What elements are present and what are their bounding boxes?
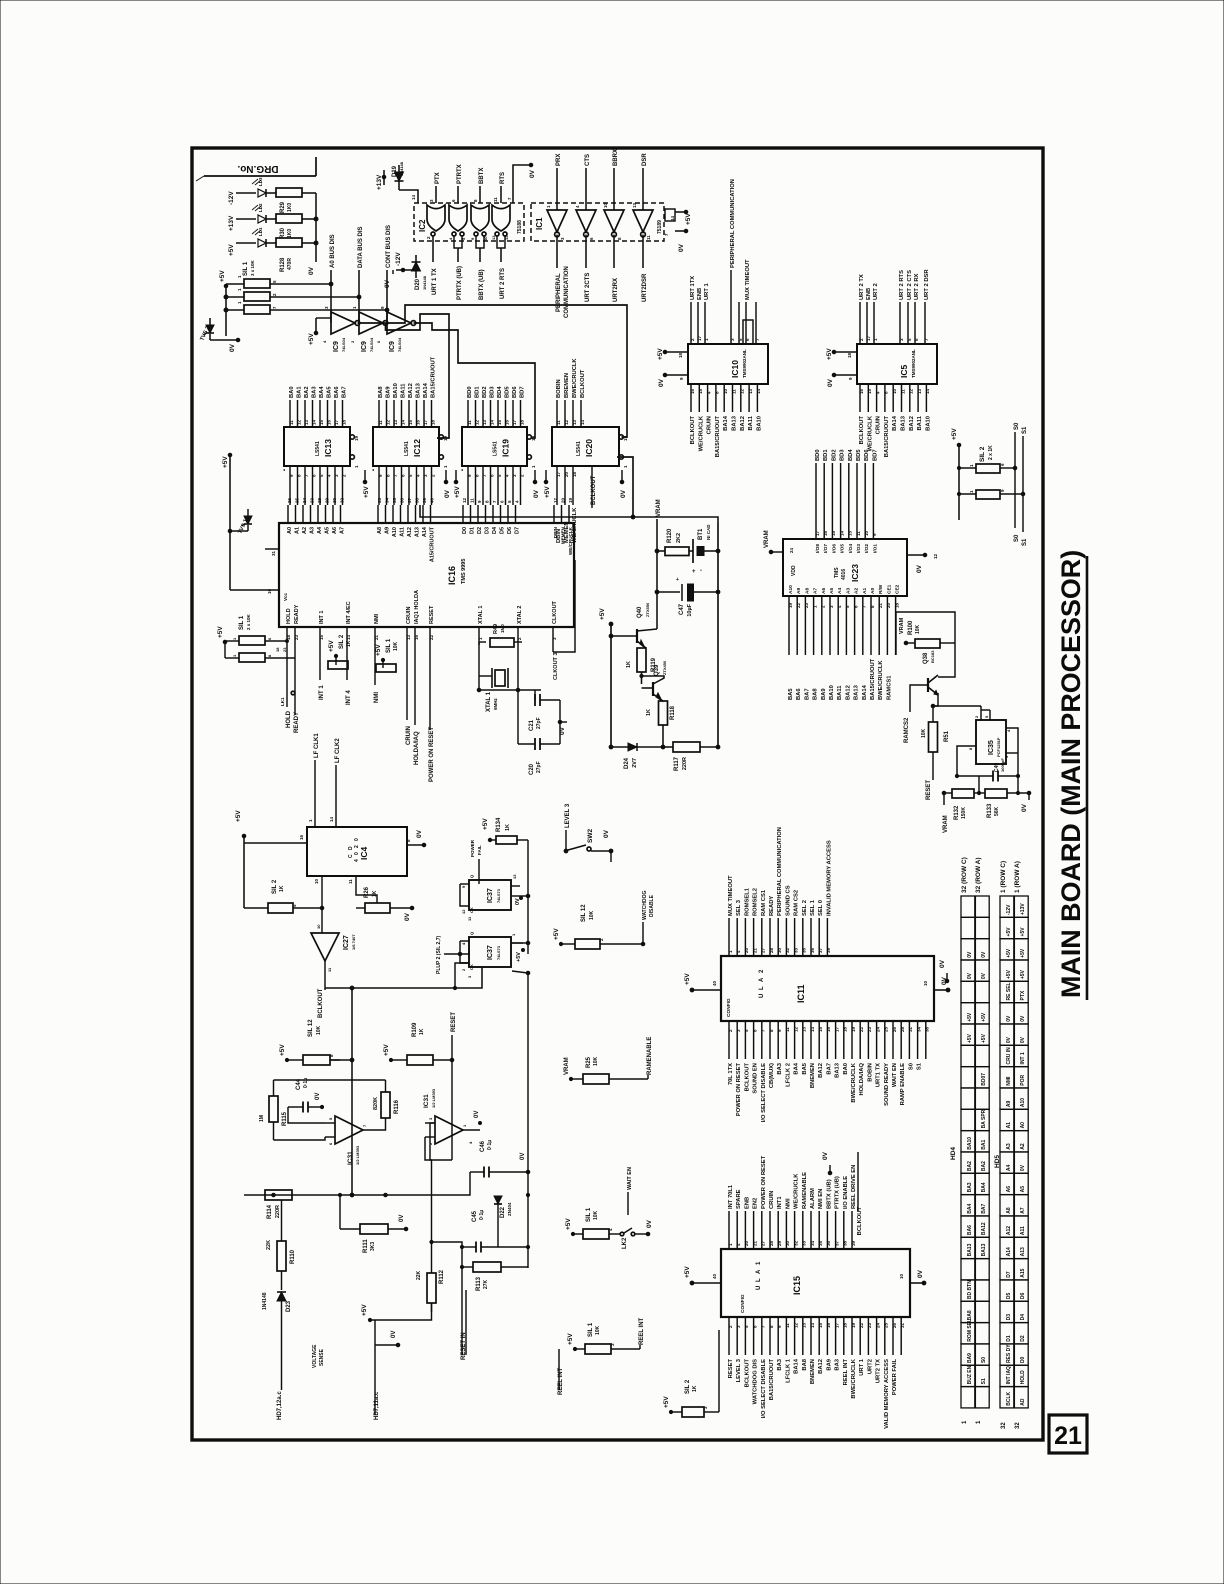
svg-text:14: 14 xyxy=(670,215,675,221)
svg-text:INT 1: INT 1 xyxy=(319,685,325,700)
svg-text:16: 16 xyxy=(299,834,304,840)
svg-text:IC1: IC1 xyxy=(535,217,544,230)
svg-text:WE/CRUCLK: WE/CRUCLK xyxy=(794,1173,800,1209)
svg-text:19: 19 xyxy=(851,1026,856,1032)
svg-text:22: 22 xyxy=(859,1322,864,1328)
svg-text:13: 13 xyxy=(848,530,853,536)
svg-text:MEMEN: MEMEN xyxy=(561,526,566,544)
svg-text:16: 16 xyxy=(823,530,828,536)
svg-text:+13V: +13V xyxy=(228,215,235,231)
svg-text:BWE/CRUCLK: BWE/CRUCLK xyxy=(572,358,578,398)
svg-text:VRAM: VRAM xyxy=(564,1057,570,1075)
svg-text:A9: A9 xyxy=(1006,1100,1012,1107)
svg-text:HOLD: HOLD xyxy=(286,608,292,624)
svg-text:34: 34 xyxy=(810,1240,815,1246)
svg-text:BA7: BA7 xyxy=(826,1063,832,1075)
svg-text:24: 24 xyxy=(789,547,794,553)
svg-text:75188: 75188 xyxy=(517,220,523,234)
svg-text:CK: CK xyxy=(469,907,474,913)
jumper loop above IC10 xyxy=(743,320,753,344)
svg-text:Q39: Q39 xyxy=(654,664,660,676)
svg-text:A3: A3 xyxy=(1006,1143,1012,1150)
svg-text:11: 11 xyxy=(348,879,353,884)
svg-text:A0: A0 xyxy=(1020,1122,1026,1129)
svg-text:BCLKOUT: BCLKOUT xyxy=(744,1359,750,1388)
svg-text:23: 23 xyxy=(294,634,299,640)
svg-text:23: 23 xyxy=(282,647,287,652)
svg-text:10µF: 10µF xyxy=(687,603,693,616)
svg-text:10K: 10K xyxy=(921,728,927,738)
svg-text:+5V: +5V xyxy=(684,1266,691,1278)
svg-text:CRUIN: CRUIN xyxy=(406,607,412,624)
svg-text:URT 1: URT 1 xyxy=(859,1358,865,1376)
svg-text:BA15/CRUOUT: BA15/CRUOUT xyxy=(769,1359,775,1401)
svg-text:HD7,12a.c: HD7,12a.c xyxy=(277,1391,283,1420)
svg-text:1M0: 1M0 xyxy=(500,624,505,633)
svg-text:13: 13 xyxy=(406,634,411,640)
svg-text:19: 19 xyxy=(568,497,573,503)
svg-text:-: - xyxy=(700,568,702,574)
svg-text:1000pF: 1000pF xyxy=(1000,758,1005,772)
svg-text:I/O SELECT DISABLE: I/O SELECT DISABLE xyxy=(761,1063,767,1122)
svg-text:13: 13 xyxy=(512,874,517,879)
svg-text:+5V: +5V xyxy=(308,333,315,345)
zener D24 2V7 in series xyxy=(628,743,637,751)
svg-text:SIL 2: SIL 2 xyxy=(339,634,345,649)
svg-text:D0: D0 xyxy=(1020,1356,1026,1363)
svg-text:21: 21 xyxy=(374,634,379,640)
svg-text:LF CLK2: LF CLK2 xyxy=(335,738,341,763)
IC23 I/O pins and BD bus stubs xyxy=(815,463,817,539)
svg-text:WAIT EN: WAIT EN xyxy=(627,1167,633,1190)
svg-text:0V: 0V xyxy=(315,1093,321,1100)
svg-text:18: 18 xyxy=(843,1026,848,1032)
svg-text:NMI EN: NMI EN xyxy=(818,1189,824,1209)
wire +5V rail x528 at IC37 xyxy=(527,840,529,954)
svg-text:0V: 0V xyxy=(981,951,987,958)
svg-text:I/O7: I/O7 xyxy=(823,544,829,553)
svg-text:ROMSEL1: ROMSEL1 xyxy=(744,887,750,916)
svg-text:BA8: BA8 xyxy=(967,1310,973,1320)
reset supervisor IC35 PCF1251P xyxy=(976,720,1006,764)
svg-text:+5V: +5V xyxy=(1020,927,1026,937)
inverter IC9b 74LS04 xyxy=(359,312,383,334)
svg-text:URT 1TX: URT 1TX xyxy=(690,276,696,300)
svg-text:12: 12 xyxy=(474,419,479,425)
svg-text:BA3: BA3 xyxy=(777,1358,783,1370)
svg-text:SENSE: SENSE xyxy=(319,1348,325,1366)
svg-text:+13V: +13V xyxy=(1020,903,1026,915)
svg-text:TMS9902ANL: TMS9902ANL xyxy=(742,349,747,378)
capacitor C49 1000pF xyxy=(992,771,994,782)
svg-text:A14: A14 xyxy=(422,526,428,537)
svg-text:NMI: NMI xyxy=(374,692,380,703)
svg-text:BA3: BA3 xyxy=(777,1062,783,1074)
svg-text:32: 32 xyxy=(1001,1422,1007,1429)
svg-text:1/6 7407: 1/6 7407 xyxy=(351,934,356,950)
svg-text:SIL 1: SIL 1 xyxy=(386,638,392,653)
svg-text:14: 14 xyxy=(756,388,761,394)
svg-text:DATA BUS DIS: DATA BUS DIS xyxy=(358,226,364,268)
svg-text:BA15/CRUOUT: BA15/CRUOUT xyxy=(431,356,437,398)
svg-text:BD0: BD0 xyxy=(815,449,821,461)
svg-text:R133: R133 xyxy=(987,803,993,818)
svg-text:BA9: BA9 xyxy=(386,386,392,398)
svg-text:+5V: +5V xyxy=(383,1044,390,1056)
IC23 address pins to BA bus xyxy=(788,596,790,655)
svg-text:17: 17 xyxy=(556,471,561,477)
svg-text:27: 27 xyxy=(761,947,766,953)
svg-text:POWER ON RESET: POWER ON RESET xyxy=(761,1155,767,1209)
svg-text:A13: A13 xyxy=(1020,1247,1026,1256)
svg-text:30: 30 xyxy=(777,947,782,953)
svg-text:BA3: BA3 xyxy=(967,1182,973,1192)
svg-text:27: 27 xyxy=(761,1240,766,1246)
svg-text:DSR: DSR xyxy=(642,153,648,166)
svg-text:40: 40 xyxy=(712,1273,717,1279)
svg-text:R26: R26 xyxy=(364,886,370,898)
svg-text:PTX: PTX xyxy=(1020,990,1026,1000)
octal buffer IC20 xyxy=(552,427,619,466)
svg-text:A3: A3 xyxy=(310,527,316,534)
svg-text:MUX TIMEOUT: MUX TIMEOUT xyxy=(745,259,751,300)
svg-text:PTRTX: PTRTX xyxy=(457,164,463,184)
svg-text:BD7: BD7 xyxy=(520,386,526,398)
svg-text:D7: D7 xyxy=(515,527,521,534)
wire HOLD READY down to labels xyxy=(286,645,288,700)
svg-text:21: 21 xyxy=(878,602,883,608)
resistor R133 56K xyxy=(985,789,1007,798)
svg-text:37: 37 xyxy=(834,1240,839,1246)
svg-text:+5V: +5V xyxy=(544,486,551,498)
svg-text:39: 39 xyxy=(422,497,427,503)
svg-text:BA3: BA3 xyxy=(312,386,318,398)
svg-text:16: 16 xyxy=(826,1026,831,1032)
svg-text:BA14: BA14 xyxy=(892,415,898,431)
svg-text:0V: 0V xyxy=(916,564,923,573)
svg-text:0V: 0V xyxy=(559,726,566,735)
svg-text:0V: 0V xyxy=(1021,803,1028,812)
svg-text:BD BTN: BD BTN xyxy=(967,1280,973,1299)
svg-text:24: 24 xyxy=(875,1026,880,1032)
svg-text:LS541: LS541 xyxy=(576,441,582,456)
svg-text:S0: S0 xyxy=(981,1357,987,1363)
svg-text:13: 13 xyxy=(802,1026,807,1032)
svg-text:23: 23 xyxy=(804,602,809,608)
svg-text:+5V: +5V xyxy=(967,1033,973,1043)
svg-text:IC4: IC4 xyxy=(359,847,369,861)
svg-text:BA0: BA0 xyxy=(289,386,295,398)
svg-text:12: 12 xyxy=(909,388,914,394)
svg-text:BA6: BA6 xyxy=(334,386,340,398)
svg-text:17: 17 xyxy=(334,419,339,425)
svg-text:17: 17 xyxy=(866,335,871,341)
svg-text:R114: R114 xyxy=(267,1204,273,1219)
buffer IC27 1/6 7407 xyxy=(311,933,339,961)
svg-text:15: 15 xyxy=(818,1322,823,1328)
svg-text:A: A xyxy=(759,977,765,982)
svg-text:A6: A6 xyxy=(332,527,338,534)
svg-text:I/O2: I/O2 xyxy=(864,544,870,553)
svg-text:0V: 0V xyxy=(404,912,411,921)
svg-text:BBTX: BBTX xyxy=(479,168,485,184)
svg-text:14: 14 xyxy=(489,419,494,425)
svg-text:WE/CRUCLK: WE/CRUCLK xyxy=(698,415,704,451)
svg-text:470R: 470R xyxy=(287,258,293,270)
svg-text:BA13: BA13 xyxy=(854,684,860,700)
svg-text:S0: S0 xyxy=(1014,534,1020,542)
svg-text:1K0: 1K0 xyxy=(287,229,293,238)
svg-text:BD6: BD6 xyxy=(512,386,518,398)
svg-text:SEL 0: SEL 0 xyxy=(818,900,824,916)
svg-text:A8: A8 xyxy=(377,527,383,534)
svg-text:BA12: BA12 xyxy=(818,1063,824,1078)
svg-text:ZTX550: ZTX550 xyxy=(645,602,650,617)
svg-text:21: 21 xyxy=(752,947,757,953)
svg-text:BA11: BA11 xyxy=(917,415,923,430)
svg-text:BNEMEN: BNEMEN xyxy=(810,1359,816,1384)
svg-text:SIL 12: SIL 12 xyxy=(308,1019,314,1037)
svg-text:150K: 150K xyxy=(961,807,967,819)
svg-text:SEL 1: SEL 1 xyxy=(810,899,816,916)
svg-text:A9: A9 xyxy=(796,588,802,594)
svg-text:38: 38 xyxy=(843,1240,848,1246)
svg-text:RESET: RESET xyxy=(451,1012,457,1032)
svg-text:+5V: +5V xyxy=(235,810,242,822)
svg-text:IC23: IC23 xyxy=(850,564,860,582)
svg-text:1K: 1K xyxy=(372,890,378,897)
svg-text:BA13: BA13 xyxy=(981,1243,987,1256)
svg-text:BA4: BA4 xyxy=(319,386,325,398)
resistor R132 150K xyxy=(952,789,974,798)
svg-text:IC15: IC15 xyxy=(792,1276,802,1295)
svg-text:DRG.No.: DRG.No. xyxy=(237,163,278,174)
svg-text:+5V: +5V xyxy=(567,1333,574,1345)
svg-text:D6: D6 xyxy=(1020,1292,1026,1299)
svg-text:CLKOUT: CLKOUT xyxy=(552,600,558,624)
svg-text:MAIN BOARD (MAIN PROCESSOR): MAIN BOARD (MAIN PROCESSOR) xyxy=(1056,550,1086,998)
connector table HD4 xyxy=(961,896,975,917)
gate IC2c xyxy=(471,205,489,231)
RAM IC23 TMS4016 xyxy=(783,539,907,596)
svg-text:0V: 0V xyxy=(1020,1015,1026,1022)
svg-text:D3: D3 xyxy=(1006,1314,1012,1321)
svg-text:C46: C46 xyxy=(480,1140,486,1152)
svg-text:IC9: IC9 xyxy=(389,341,396,352)
svg-text:12: 12 xyxy=(504,235,509,240)
svg-text:SIL 1: SIL 1 xyxy=(586,1207,592,1222)
svg-text:RAMP ENABLE: RAMP ENABLE xyxy=(900,1063,906,1106)
svg-text:29: 29 xyxy=(324,497,329,503)
wire IC20 pin1 run to right bus xyxy=(617,457,633,517)
svg-text:A8: A8 xyxy=(804,588,810,594)
svg-text:INT 4: INT 4 xyxy=(346,690,352,705)
svg-text:URT 2 DSR: URT 2 DSR xyxy=(924,269,930,300)
svg-text:+: + xyxy=(676,577,679,583)
svg-text:R51: R51 xyxy=(944,730,950,742)
svg-text:17: 17 xyxy=(553,497,558,503)
svg-text:POWER ON RESET: POWER ON RESET xyxy=(736,1063,742,1117)
svg-text:MUX TIMEOUT: MUX TIMEOUT xyxy=(728,875,734,916)
wire staircase bundle outer xyxy=(358,305,628,437)
svg-text:IC19: IC19 xyxy=(501,439,511,457)
svg-text:I/O SELECT DISABLE: I/O SELECT DISABLE xyxy=(761,1359,767,1418)
svg-text:37: 37 xyxy=(407,497,412,503)
svg-text:+5V: +5V xyxy=(599,608,606,620)
svg-text:BA15/CRUOUT: BA15/CRUOUT xyxy=(884,416,890,458)
svg-text:1K: 1K xyxy=(419,1028,425,1035)
svg-text:0V: 0V xyxy=(967,951,973,958)
svg-text:0·1µ: 0·1µ xyxy=(479,1210,485,1220)
svg-text:0: 0 xyxy=(354,852,360,855)
svg-text:24: 24 xyxy=(302,497,307,503)
svg-text:I/O3: I/O3 xyxy=(856,544,862,553)
svg-text:17: 17 xyxy=(834,1322,839,1328)
svg-text:BA2: BA2 xyxy=(967,1161,973,1171)
svg-text:13: 13 xyxy=(491,235,496,240)
svg-text:BA14: BA14 xyxy=(723,415,729,431)
svg-text:INT 4/EC: INT 4/EC xyxy=(346,601,352,624)
svg-text:11: 11 xyxy=(785,1323,790,1328)
microprocessor IC16 TMS9995 xyxy=(279,523,574,627)
svg-text:S0: S0 xyxy=(1014,422,1020,430)
capacitor C20 27pF xyxy=(534,738,536,750)
svg-text:2K2: 2K2 xyxy=(676,533,682,543)
svg-text:+5V: +5V xyxy=(219,270,226,282)
svg-text:0V: 0V xyxy=(308,266,315,275)
svg-text:IC31: IC31 xyxy=(347,1151,354,1165)
svg-text:HOLD: HOLD xyxy=(1020,1370,1026,1385)
svg-text:IC11: IC11 xyxy=(796,984,806,1003)
svg-text:LFCLK 1: LFCLK 1 xyxy=(785,1358,791,1383)
svg-text:COMMUNICATION: COMMUNICATION xyxy=(564,266,570,318)
svg-text:BA9: BA9 xyxy=(826,1358,832,1370)
svg-text:37: 37 xyxy=(818,947,823,953)
svg-text:TMS 9995: TMS 9995 xyxy=(461,559,467,584)
svg-text:CRUIN: CRUIN xyxy=(876,416,882,434)
svg-text:1N4148: 1N4148 xyxy=(262,1292,268,1310)
net CLKOUT 3 xyxy=(552,645,554,652)
svg-text:0V: 0V xyxy=(939,959,946,968)
svg-text:ROMSEL2: ROMSEL2 xyxy=(753,888,759,916)
svg-text:PERIPHERAL COMMUNICATION: PERIPHERAL COMMUNICATION xyxy=(730,179,736,268)
svg-text:IC37: IC37 xyxy=(487,888,494,903)
svg-text:LK1: LK1 xyxy=(280,697,285,706)
svg-text:HD5: HD5 xyxy=(994,1155,1001,1168)
svg-text:74LS04: 74LS04 xyxy=(341,337,346,352)
svg-text:23: 23 xyxy=(867,1322,872,1328)
svg-text:A9: A9 xyxy=(385,527,391,534)
svg-text:URT 2: URT 2 xyxy=(873,283,879,300)
svg-text:14: 14 xyxy=(329,816,334,822)
svg-text:11: 11 xyxy=(785,1027,790,1032)
svg-text:2: 2 xyxy=(354,845,360,848)
svg-text:10: 10 xyxy=(603,202,608,208)
svg-text:19: 19 xyxy=(788,602,793,608)
svg-text:32: 32 xyxy=(339,497,344,503)
svg-text:28: 28 xyxy=(769,947,774,953)
svg-text:A2: A2 xyxy=(1020,1143,1026,1150)
svg-text:+5V: +5V xyxy=(657,348,664,360)
svg-text:11: 11 xyxy=(378,420,383,425)
svg-text:0V: 0V xyxy=(917,1269,924,1278)
svg-text:18: 18 xyxy=(678,352,683,358)
svg-text:NMI: NMI xyxy=(374,613,380,624)
svg-text:CRUIN: CRUIN xyxy=(406,726,412,745)
svg-text:1M: 1M xyxy=(259,1115,265,1122)
resistor R113 27K xyxy=(473,1262,501,1272)
svg-text:13: 13 xyxy=(917,388,922,394)
svg-text:4: 4 xyxy=(354,859,360,862)
svg-text:+5V: +5V xyxy=(663,1396,670,1408)
svg-text:A7: A7 xyxy=(813,588,819,594)
svg-text:+5V: +5V xyxy=(967,1012,973,1022)
svg-text:12: 12 xyxy=(740,388,745,394)
resistor R117 220R xyxy=(673,742,700,752)
svg-text:RTS: RTS xyxy=(500,172,506,184)
svg-text:+5V: +5V xyxy=(375,644,382,656)
svg-text:BA9: BA9 xyxy=(821,688,827,700)
svg-text:33: 33 xyxy=(377,497,382,503)
svg-text:INT 1: INT 1 xyxy=(1020,1052,1026,1064)
svg-text:S1: S1 xyxy=(1022,426,1028,434)
svg-text:RAMENABLE: RAMENABLE xyxy=(802,1172,808,1209)
svg-text:16: 16 xyxy=(859,388,864,394)
receiver IC1 gate PRX xyxy=(547,210,567,232)
svg-text:1/2 LM393: 1/2 LM393 xyxy=(355,1145,360,1165)
svg-text:11: 11 xyxy=(856,531,861,536)
svg-text:BNEMEN: BNEMEN xyxy=(810,1063,816,1088)
svg-text:+5V: +5V xyxy=(1006,948,1012,958)
svg-text:D1: D1 xyxy=(470,527,476,534)
svg-text:20: 20 xyxy=(564,471,569,477)
svg-text:S0: S0 xyxy=(908,1063,914,1070)
svg-text:+5V: +5V xyxy=(565,1218,572,1230)
svg-text:0V: 0V xyxy=(1020,1036,1026,1043)
gate array IC15 ULA 1 xyxy=(721,1249,910,1317)
svg-text:18: 18 xyxy=(847,352,852,358)
svg-text:10K: 10K xyxy=(595,1325,601,1335)
svg-text:31: 31 xyxy=(908,1026,913,1032)
crystal XTAL1 6MHz xyxy=(479,675,492,677)
svg-text:L: L xyxy=(759,986,765,990)
svg-text:29: 29 xyxy=(777,1240,782,1246)
svg-text:RESET: RESET xyxy=(728,1359,734,1379)
svg-text:19: 19 xyxy=(531,435,536,441)
gate IC2a xyxy=(427,205,445,231)
svg-text:Q38: Q38 xyxy=(923,652,929,664)
svg-text:21: 21 xyxy=(1054,1422,1082,1450)
svg-text:11: 11 xyxy=(900,389,905,394)
0V stub near voltage sense xyxy=(375,1344,398,1346)
svg-text:LS541: LS541 xyxy=(315,441,321,456)
svg-text:R116: R116 xyxy=(394,1099,400,1114)
gate IC2d xyxy=(492,205,510,231)
svg-text:25: 25 xyxy=(884,1322,889,1328)
svg-text:D1: D1 xyxy=(1006,1335,1012,1342)
svg-text:R112: R112 xyxy=(439,1269,445,1284)
svg-text:BD2: BD2 xyxy=(482,386,488,398)
svg-text:BA2: BA2 xyxy=(981,1161,987,1171)
svg-text:BWE/CRUCLK: BWE/CRUCLK xyxy=(878,660,884,700)
svg-text:BA11: BA11 xyxy=(748,415,754,430)
svg-text:25: 25 xyxy=(294,497,299,503)
svg-text:URT2RX: URT2RX xyxy=(613,278,619,302)
svg-text:RE SEL: RE SEL xyxy=(1006,982,1012,1000)
svg-text:1K0: 1K0 xyxy=(287,203,293,212)
svg-text:INT1: INT1 xyxy=(777,1196,783,1209)
svg-text:38: 38 xyxy=(414,497,419,503)
